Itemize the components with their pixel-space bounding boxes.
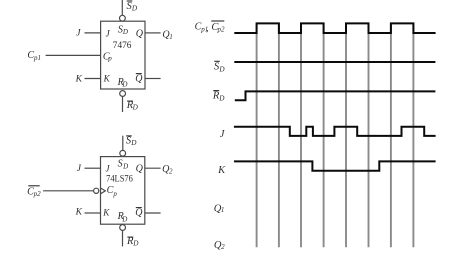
svg-text:D: D: [132, 104, 139, 112]
svg-text:D: D: [130, 139, 137, 147]
svg-text:p2: p2: [217, 26, 226, 34]
svg-text:K: K: [102, 208, 110, 218]
svg-text:p1: p1: [33, 54, 41, 62]
svg-text:1: 1: [221, 206, 225, 214]
svg-text:K: K: [217, 165, 226, 176]
svg-text:,: ,: [206, 24, 208, 34]
svg-text:D: D: [218, 94, 225, 102]
svg-text:K: K: [75, 208, 83, 218]
svg-text:2: 2: [169, 168, 173, 176]
svg-text:p2: p2: [33, 190, 42, 198]
svg-text:74LS76: 74LS76: [106, 174, 133, 184]
svg-text:p: p: [112, 190, 117, 198]
svg-text:Q: Q: [135, 208, 143, 219]
svg-text:K: K: [75, 75, 83, 85]
svg-text:D: D: [121, 81, 127, 89]
svg-text:Q: Q: [135, 74, 143, 85]
svg-text:7476: 7476: [113, 41, 132, 51]
svg-text:D: D: [122, 28, 128, 36]
svg-text:D: D: [218, 66, 225, 74]
svg-text:p: p: [107, 55, 112, 63]
svg-text:D: D: [122, 162, 128, 170]
svg-text:2: 2: [221, 243, 225, 251]
svg-text:S: S: [118, 159, 123, 170]
svg-text:1: 1: [169, 33, 173, 41]
svg-text:K: K: [103, 74, 111, 84]
svg-text:D: D: [131, 5, 138, 13]
svg-text:D: D: [121, 216, 127, 224]
svg-text:Q: Q: [136, 28, 144, 39]
svg-text:Q: Q: [136, 164, 144, 175]
svg-text:D: D: [132, 240, 139, 248]
